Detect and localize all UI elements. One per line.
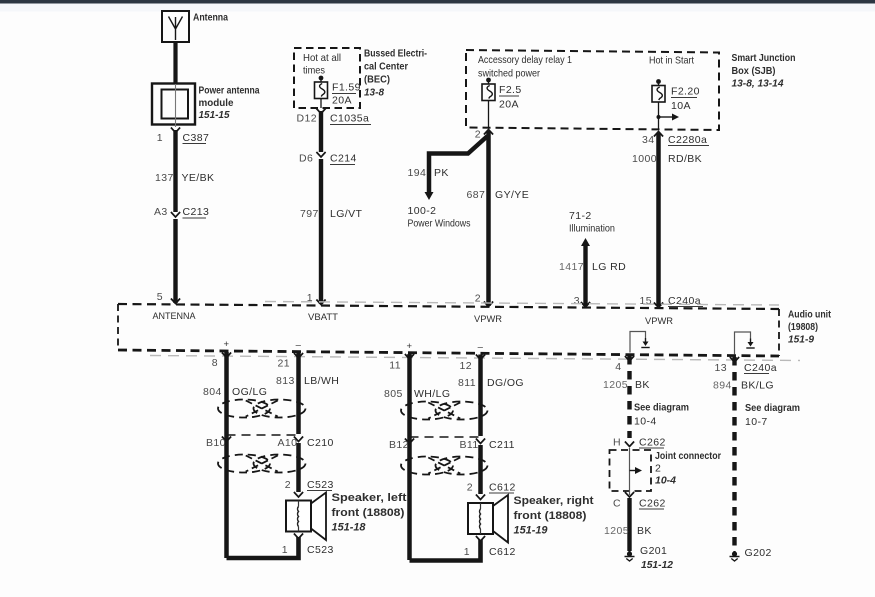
- wire 137 YE/BK: [173, 130, 177, 212]
- svg-text:151-19: 151-19: [514, 525, 549, 537]
- speaker left front: [311, 493, 326, 541]
- arrow to 100-2 power windows: [425, 192, 434, 200]
- svg-text:71-2: 71-2: [569, 210, 592, 222]
- svg-text:C240a: C240a: [668, 295, 701, 307]
- svg-text:13-8: 13-8: [364, 87, 384, 99]
- svg-text:151-12: 151-12: [641, 559, 673, 571]
- joint connector dashed box: [610, 450, 652, 491]
- wire 805 WH/LG pin 11 down: [407, 354, 412, 560]
- connector C210 dashed line: [227, 434, 299, 436]
- svg-text:Hot at all: Hot at all: [303, 52, 341, 64]
- branch arrow inside SJB: [657, 115, 661, 119]
- svg-text:F2.5: F2.5: [499, 84, 522, 96]
- arrow at C211 left wire: [405, 439, 414, 444]
- svg-text:G201: G201: [640, 545, 667, 557]
- connector arrow below SJB pin 2: [484, 130, 493, 135]
- svg-text:10-4: 10-4: [634, 416, 657, 428]
- svg-text:21: 21: [278, 358, 290, 370]
- svg-text:Power Windows: Power Windows: [408, 218, 471, 230]
- arrow at C211 right wire: [476, 439, 485, 444]
- wire fuse F2.5 to SJB edge: [488, 101, 490, 129]
- svg-text:switched power: switched power: [478, 68, 540, 80]
- svg-text:D6: D6: [299, 153, 313, 165]
- svg-text:13: 13: [715, 362, 727, 374]
- power antenna module inner box: [162, 90, 189, 119]
- svg-text:2: 2: [475, 129, 481, 141]
- connector C523 arrow top: [294, 492, 303, 497]
- svg-text:Accessory delay relay 1: Accessory delay relay 1: [478, 54, 572, 66]
- svg-text:12: 12: [460, 360, 472, 372]
- svg-text:4: 4: [615, 361, 621, 373]
- svg-text:Hot in Start: Hot in Start: [649, 55, 694, 67]
- svg-text:See diagram: See diagram: [634, 402, 689, 414]
- svg-text:ANTENNA: ANTENNA: [153, 311, 197, 322]
- svg-text:34: 34: [642, 134, 654, 146]
- svg-text:B11: B11: [460, 439, 479, 451]
- wire C213 to audio unit pin 5: [173, 219, 177, 303]
- arrow out of audio pin 12: [476, 355, 485, 360]
- svg-text:A10: A10: [278, 437, 298, 449]
- svg-text:C: C: [613, 498, 621, 510]
- arrow at C262 C: [625, 492, 634, 497]
- svg-text:front (18808): front (18808): [514, 510, 587, 522]
- svg-text:YE/BK: YE/BK: [182, 172, 215, 184]
- svg-text:20A: 20A: [499, 99, 519, 111]
- svg-text:1417: 1417: [559, 261, 584, 273]
- svg-text:C2280a: C2280a: [668, 134, 707, 146]
- svg-text:+: +: [224, 339, 230, 350]
- svg-text:Joint connector: Joint connector: [655, 450, 721, 462]
- svg-text:A3: A3: [154, 206, 168, 218]
- antenna symbol box: [162, 11, 189, 42]
- ground G202: [733, 551, 735, 556]
- wire 797 LG/VT to audio unit pin 1: [319, 159, 323, 304]
- svg-text:BK: BK: [637, 525, 652, 537]
- wire 811 DG/OG pin 12 down: [478, 355, 483, 437]
- svg-text:10-7: 10-7: [745, 416, 768, 428]
- branch wire to power windows: [429, 136, 488, 192]
- svg-text:1000: 1000: [632, 153, 657, 165]
- arrow out of audio pin 8: [222, 353, 231, 358]
- arrow at C210 left wire: [222, 437, 231, 442]
- wire 1205 BK dashed from pin 4: [627, 356, 631, 438]
- svg-text:11: 11: [389, 360, 401, 372]
- off-page arrow up illumination: [581, 238, 590, 246]
- wire inside module: [175, 84, 177, 127]
- svg-text:2: 2: [655, 463, 661, 475]
- antenna glyph: [169, 17, 183, 41]
- arrow out of audio pin 4: [625, 356, 634, 361]
- arrow at C210 right wire: [294, 437, 303, 442]
- wire B11 to speaker C612: [478, 445, 483, 494]
- svg-text:3: 3: [574, 295, 580, 307]
- svg-text:front (18808): front (18808): [332, 507, 405, 519]
- svg-text:DG/OG: DG/OG: [487, 377, 524, 389]
- svg-text:Speaker, left: Speaker, left: [332, 492, 407, 504]
- svg-text:F1.59: F1.59: [332, 82, 361, 94]
- svg-text:2: 2: [467, 482, 473, 494]
- ground G201: [628, 551, 630, 556]
- fuse F2.5 20A: [486, 78, 491, 83]
- twisted pair lower right speaker: [401, 457, 453, 475]
- svg-text:–: –: [296, 340, 302, 351]
- svg-text:C612: C612: [489, 546, 516, 558]
- internal ground at pin 13: [735, 332, 751, 355]
- svg-text:C523: C523: [307, 544, 334, 556]
- svg-text:RD/BK: RD/BK: [668, 153, 702, 165]
- svg-text:15: 15: [640, 295, 652, 307]
- svg-text:Power antenna: Power antenna: [199, 85, 260, 97]
- wire 813 LB/WH pin 21 down: [296, 353, 301, 434]
- svg-text:(19808): (19808): [788, 321, 818, 333]
- svg-text:LB/WH: LB/WH: [304, 375, 339, 387]
- svg-text:805: 805: [384, 388, 403, 400]
- svg-text:PK: PK: [434, 167, 449, 179]
- svg-text:VBATT: VBATT: [308, 312, 338, 323]
- fuse F2.20 10A: [656, 79, 661, 84]
- power antenna module U1 outer box: [152, 84, 195, 125]
- svg-text:Audio unit: Audio unit: [788, 309, 831, 321]
- svg-text:C211: C211: [489, 439, 515, 451]
- svg-text:C214: C214: [330, 153, 357, 165]
- svg-text:137: 137: [155, 172, 174, 184]
- connector C387 arrow: [171, 128, 180, 133]
- arrow into audio unit pin 2: [484, 302, 493, 307]
- connector arrow below SJB pin 34: [654, 132, 663, 137]
- svg-text:Illumination: Illumination: [569, 223, 615, 235]
- audio unit dashed box: [118, 304, 779, 309]
- arrow out of audio pin 21: [294, 353, 303, 358]
- svg-text:194: 194: [408, 167, 427, 179]
- svg-text:G202: G202: [745, 547, 772, 559]
- svg-text:(BEC): (BEC): [364, 74, 390, 86]
- svg-text:VPWR: VPWR: [645, 316, 673, 327]
- joint connector arrow: [630, 470, 638, 472]
- twisted pair upper left speaker: [218, 400, 270, 418]
- svg-text:1: 1: [464, 546, 470, 558]
- svg-text:BK: BK: [635, 379, 650, 391]
- svg-text:797: 797: [300, 208, 319, 220]
- svg-text:20A: 20A: [332, 95, 352, 107]
- svg-text:D12: D12: [297, 113, 317, 125]
- svg-text:10A: 10A: [671, 100, 691, 112]
- svg-text:B10: B10: [206, 437, 226, 449]
- wire 804 OG/LG pin 8 down: [224, 352, 229, 558]
- wire 1205 BK to G201: [627, 498, 631, 551]
- svg-text:See diagram: See diagram: [745, 402, 800, 414]
- svg-text:687: 687: [467, 189, 486, 201]
- audio unit ghost scan line bottom: [150, 356, 800, 361]
- svg-text:times: times: [303, 65, 325, 77]
- svg-text:8: 8: [212, 357, 218, 369]
- twisted pair upper right speaker: [401, 402, 453, 420]
- svg-text:LG/VT: LG/VT: [330, 208, 363, 220]
- svg-text:B12: B12: [389, 439, 409, 451]
- fuse F1.59 20A: [319, 76, 324, 81]
- svg-text:C1035a: C1035a: [330, 113, 369, 125]
- arrow out of audio pin 11: [405, 354, 414, 359]
- svg-text:151-15: 151-15: [199, 109, 230, 121]
- arrow into audio unit pin 3: [581, 302, 590, 307]
- svg-text:1: 1: [282, 544, 288, 556]
- svg-text:cal Center: cal Center: [364, 61, 408, 73]
- svg-text:H: H: [613, 437, 621, 449]
- svg-text:100-2: 100-2: [408, 205, 437, 217]
- wire D12 to C214: [319, 111, 323, 152]
- svg-text:C387: C387: [183, 132, 210, 144]
- svg-text:WH/LG: WH/LG: [414, 388, 450, 400]
- svg-text:2: 2: [285, 479, 291, 491]
- svg-text:C262: C262: [639, 498, 666, 510]
- arrow into audio unit pin 1: [316, 300, 325, 305]
- svg-text:C213: C213: [183, 206, 210, 218]
- twisted pair lower left speaker: [218, 455, 270, 473]
- wire 894 BK/LG dashed from pin 13: [732, 357, 736, 551]
- wire GY/YE from SJB pin 2 to audio pin 2: [486, 131, 491, 306]
- svg-text:VPWR: VPWR: [474, 314, 502, 325]
- svg-text:1205: 1205: [603, 379, 628, 391]
- speaker right front: [493, 495, 508, 543]
- svg-text:F2.20: F2.20: [671, 86, 700, 98]
- wire antenna to power antenna module: [173, 42, 177, 84]
- svg-text:–: –: [478, 342, 484, 353]
- svg-text:Speaker, right: Speaker, right: [514, 495, 594, 507]
- audio unit ghost scan line top: [265, 302, 779, 306]
- connector C612 arrow bottom: [476, 536, 485, 541]
- svg-text:LG RD: LG RD: [592, 261, 626, 273]
- svg-text:811: 811: [458, 377, 476, 389]
- arrow into audio unit pin 5: [171, 299, 180, 304]
- svg-text:10-4: 10-4: [655, 475, 676, 487]
- internal ground at pin 4: [630, 332, 646, 353]
- wire fuse to BEC box edge: [320, 99, 322, 109]
- svg-text:Antenna: Antenna: [193, 12, 228, 24]
- wire 1417 LG/RD to audio pin 3: [583, 246, 587, 306]
- arrow at C262 H: [625, 442, 634, 447]
- connector C214 arrow: [316, 152, 325, 157]
- svg-text:C612: C612: [489, 482, 516, 494]
- svg-text:1: 1: [157, 132, 163, 144]
- svg-text:5: 5: [157, 291, 163, 303]
- svg-text:C262: C262: [639, 437, 666, 449]
- svg-text:module: module: [199, 97, 234, 109]
- connector C211 dashed line: [410, 436, 481, 438]
- svg-text:Box (SJB): Box (SJB): [732, 65, 776, 77]
- arrow out of audio pin 13: [730, 357, 739, 362]
- connector C1035a arrow: [316, 109, 325, 114]
- svg-text:+: +: [407, 341, 413, 352]
- connector C612 arrow top: [476, 495, 485, 500]
- svg-text:C210: C210: [307, 437, 334, 449]
- speaker return wire loop: [227, 537, 299, 558]
- connector C213 arrow: [171, 212, 180, 217]
- Bussed Electrical Center dashed box: [294, 48, 360, 108]
- connector C523 arrow bottom: [294, 534, 303, 539]
- svg-text:1205: 1205: [604, 525, 629, 537]
- wire fuse F2.20 down: [658, 102, 660, 130]
- svg-text:813: 813: [276, 375, 295, 387]
- svg-text:BK/LG: BK/LG: [741, 380, 774, 392]
- arrow into audio unit pin 15: [654, 303, 663, 308]
- wire through joint connector: [629, 448, 631, 495]
- svg-text:OG/LG: OG/LG: [232, 386, 267, 398]
- svg-text:GY/YE: GY/YE: [495, 189, 529, 201]
- svg-text:Smart Junction: Smart Junction: [732, 52, 796, 64]
- svg-text:2: 2: [475, 293, 481, 305]
- svg-text:C523: C523: [307, 479, 334, 491]
- wire A10 to speaker C523: [296, 443, 301, 492]
- svg-text:151-9: 151-9: [788, 334, 814, 346]
- speaker return wire loop right: [410, 540, 481, 561]
- svg-text:894: 894: [713, 380, 732, 392]
- svg-text:Bussed Electri-: Bussed Electri-: [364, 48, 427, 60]
- svg-text:13-8, 13-14: 13-8, 13-14: [732, 78, 784, 90]
- svg-text:C240a: C240a: [744, 362, 777, 374]
- Smart Junction Box dashed outline: [466, 50, 719, 130]
- top browser chrome bar: [0, 0, 875, 4]
- svg-text:804: 804: [203, 386, 222, 398]
- svg-text:151-18: 151-18: [332, 522, 367, 534]
- wire 1000 RD/BK to audio pin 15: [656, 133, 661, 306]
